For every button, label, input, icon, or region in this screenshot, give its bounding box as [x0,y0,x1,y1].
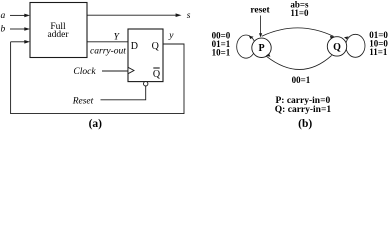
svg-text:D: D [131,41,138,52]
svg-text:(a): (a) [89,118,103,130]
wire carry-in arrow [11,41,25,43]
clock edge triangle [128,67,134,73]
arrowhead arc P to Q [330,36,335,39]
full adder U1 [30,3,87,58]
svg-text:carry-out: carry-out [90,46,126,56]
svg-text:Clock: Clock [73,67,96,77]
wire Q output feedback [11,42,184,114]
svg-text:P: P [258,43,264,54]
svg-text:Q: Q [333,42,341,53]
reset bubble [144,82,148,86]
svg-text:10=1: 10=1 [212,48,231,58]
D flip-flop U2 [128,29,163,82]
svg-text:reset: reset [250,6,270,16]
svg-text:y: y [168,31,174,41]
wire Y carry-out to D [87,41,128,43]
svg-text:Q: Q [152,41,160,52]
svg-text:(b): (b) [298,118,312,130]
arc Q to P [267,55,332,69]
wire reset [101,86,146,100]
state Q [327,37,346,56]
wire sum output s [87,14,177,16]
arc P to Q [262,28,334,37]
self-loop on state P [237,35,256,58]
svg-text:a: a [1,11,6,21]
arrowhead Q self-loop [344,36,349,39]
self-loop on state Q [346,34,365,57]
svg-text:b: b [1,25,6,35]
wire input b [10,28,25,30]
svg-text:Q: Q [153,69,161,80]
svg-text:adder: adder [47,30,69,40]
svg-text:Reset: Reset [72,97,94,107]
svg-text:11=0: 11=0 [290,8,309,18]
wire input a [10,14,25,16]
svg-text:s: s [187,11,191,21]
wire clock [102,70,128,72]
svg-text:00=1: 00=1 [292,75,311,85]
svg-text:Q: carry-in=1: Q: carry-in=1 [275,105,332,115]
state P [252,38,271,57]
reset arrow [260,16,262,34]
arrowhead P self-loop [249,36,254,39]
arrowhead arc Q to P [266,53,271,56]
svg-text:11=1: 11=1 [369,47,388,57]
